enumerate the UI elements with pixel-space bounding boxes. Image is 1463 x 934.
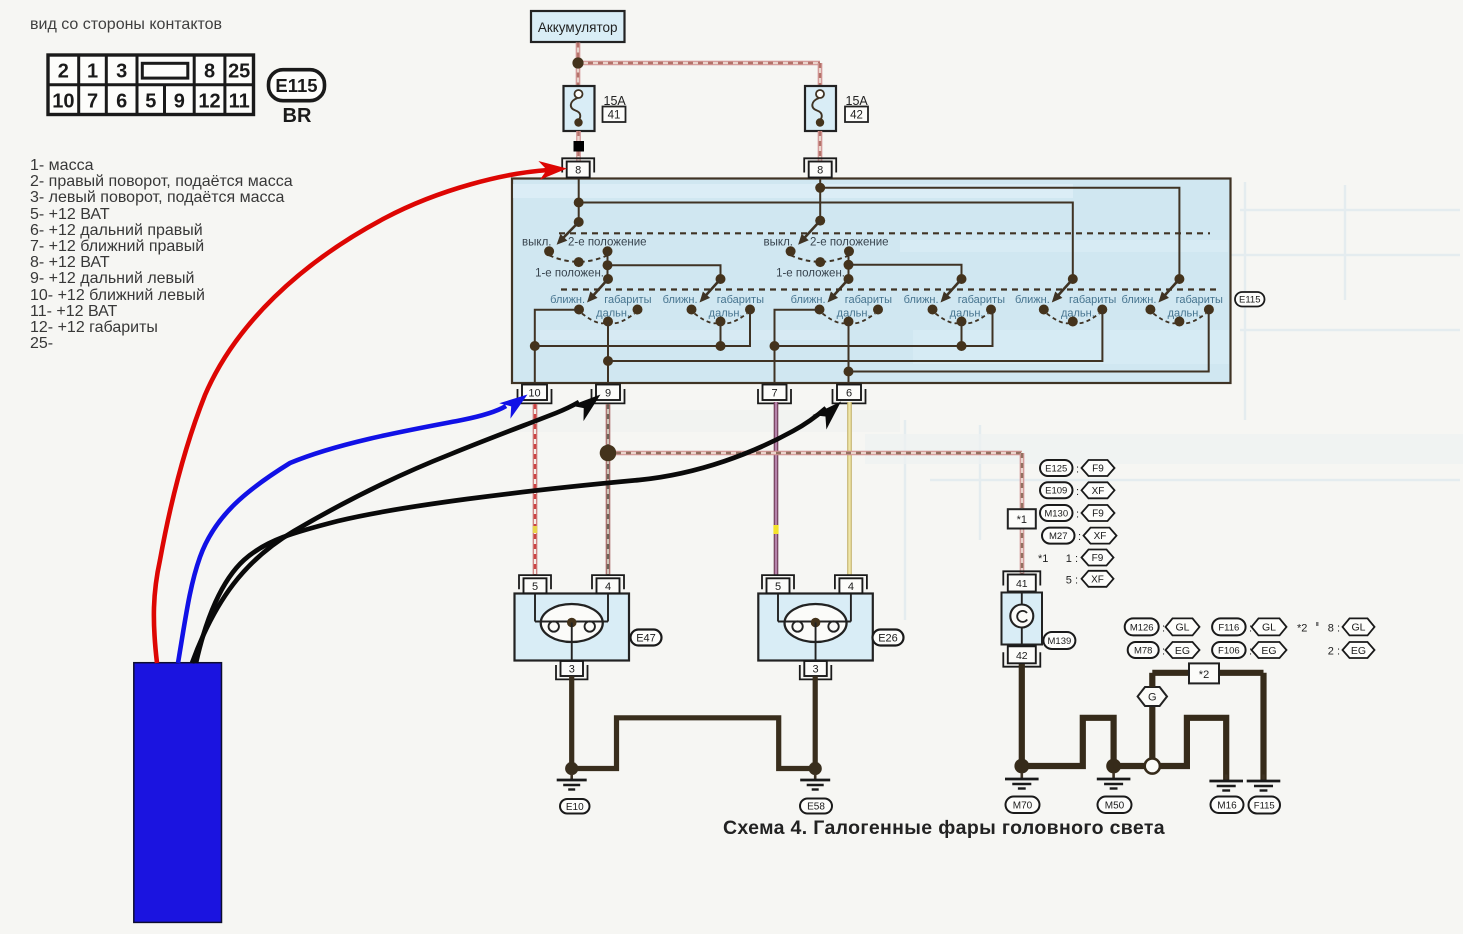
svg-text:9: 9 [605, 387, 611, 399]
wire junction to M139 (red striped) [616, 451, 1022, 456]
svg-text::: : [1076, 486, 1079, 498]
svg-text:XF: XF [1092, 486, 1105, 497]
svg-text:2 :: 2 : [1328, 646, 1340, 658]
svg-text:E26: E26 [878, 632, 898, 644]
svg-text:42: 42 [850, 110, 863, 122]
switch 2 lever [704, 279, 720, 297]
battery Аккумулятор [531, 11, 625, 42]
svg-text:M126: M126 [1130, 622, 1154, 633]
svg-text:8: 8 [204, 61, 215, 83]
svg-text:выкл.: выкл. [522, 237, 551, 249]
wire battery to fuse 41 [576, 43, 581, 87]
junction battery feed [572, 57, 583, 68]
switch lever A [561, 222, 578, 240]
net tag EG for F106 [1252, 642, 1287, 658]
reference M27 [1042, 528, 1075, 544]
contact ближн. switch 2 [687, 305, 697, 315]
wire to switch 3 pivot [848, 251, 850, 279]
svg-text:5: 5 [532, 581, 538, 593]
node G hexagon [1138, 687, 1167, 706]
svg-text:F106: F106 [1218, 645, 1240, 656]
wire pin 10 to lamp E47 (red/white) [533, 404, 538, 576]
dashed arc switch 5 [1047, 314, 1073, 324]
dashed arc switch 1 [582, 314, 608, 324]
connector pin 8 left [562, 158, 594, 172]
switch 2 pivot [716, 274, 726, 284]
svg-text:габариты: габариты [1176, 294, 1223, 306]
wire дальн.1 to pin 9 [607, 322, 609, 384]
switch 6 pivot [1174, 274, 1184, 284]
net tag F9 for M130 [1082, 505, 1115, 521]
ground M50 [1112, 773, 1115, 779]
svg-text:XF: XF [1094, 531, 1107, 542]
switch block designator E115 [1235, 292, 1265, 307]
wire rail to switch 5 pivot [579, 203, 1073, 280]
svg-text:3: 3 [569, 664, 575, 676]
svg-text::: : [1076, 509, 1079, 521]
svg-text:E115: E115 [1239, 295, 1260, 306]
svg-text:5 :: 5 : [1066, 575, 1078, 587]
contact дальн. switch 3 [844, 317, 854, 327]
svg-text:8: 8 [575, 165, 581, 177]
wire M139 pin 42 to ground M70 [1019, 664, 1025, 766]
svg-text:41: 41 [608, 110, 621, 122]
svg-text:*1: *1 [1017, 514, 1027, 526]
net tag GL for *2 pin 8 [1343, 618, 1375, 635]
svg-text:F9: F9 [1092, 553, 1104, 564]
connector pin 9 [592, 389, 625, 403]
contact габариты switch 5 [1097, 305, 1107, 315]
decorative [865, 434, 1463, 464]
wire G up to *2 run [1149, 673, 1155, 687]
svg-text:3: 3 [116, 61, 127, 83]
svg-text:Аккумулятор: Аккумулятор [538, 20, 618, 35]
svg-text:5: 5 [145, 91, 156, 113]
wire дальн.3 to pin 6 [848, 322, 850, 384]
connector pin 6 [833, 389, 866, 403]
switch 4 lever [945, 279, 961, 297]
wire down to M139 connector 41 [1020, 453, 1025, 574]
arrowhead red at pin 8 [538, 159, 567, 180]
svg-text:2-е положение: 2-е положение [810, 237, 889, 249]
connector pin 5 E47 [519, 575, 551, 589]
junction ground E58 [809, 762, 822, 775]
pointer curve black to pin 6 [196, 408, 826, 663]
connector pin 5 E26 [762, 575, 794, 589]
svg-text:E115: E115 [275, 75, 317, 96]
dashed arc switch 3 [823, 314, 849, 324]
contact ближн. switch 4 [928, 305, 938, 315]
decorative [1316, 622, 1319, 626]
contact ближн. switch 3 [815, 305, 825, 315]
contact дальн. switch 2 [716, 317, 726, 327]
svg-text:8 :: 8 : [1328, 623, 1340, 635]
svg-text:F115: F115 [1254, 800, 1275, 811]
pointer curve black to pin 9 [192, 402, 579, 663]
svg-text:1-е положен.: 1-е положен. [535, 268, 604, 280]
svg-text:GL: GL [1262, 622, 1276, 634]
svg-text:BR: BR [283, 105, 312, 127]
svg-text:M16: M16 [1217, 800, 1237, 811]
connector pin 8 right [804, 158, 836, 172]
junction rail 2 [603, 356, 613, 366]
headlamp E47 [515, 594, 630, 661]
pointer curve blue to pin 10 [178, 406, 506, 663]
junction ground M70 [1014, 759, 1029, 774]
junction rail 1 right [770, 341, 780, 351]
svg-text::: : [1162, 623, 1165, 635]
ground M16 [1225, 775, 1228, 781]
net tag EG for M78 [1166, 642, 1200, 658]
reference M126 [1125, 618, 1159, 635]
switch lever B [803, 221, 820, 240]
svg-text:EG: EG [1351, 645, 1366, 657]
svg-text::: : [1162, 646, 1165, 658]
wire to switch 1 pivot [607, 251, 609, 279]
svg-text:F116: F116 [1218, 622, 1239, 633]
wire ground interconnect E10-E58 [572, 718, 816, 769]
svg-text:E125: E125 [1045, 463, 1067, 474]
junction ground M50 [1106, 759, 1121, 774]
note box *1 [1008, 509, 1036, 528]
lamp designator E47 [631, 630, 662, 646]
junction дальн.4 [957, 341, 967, 351]
connector pin 7 [758, 389, 791, 403]
svg-text:*2: *2 [1297, 623, 1307, 635]
decorative [905, 182, 1460, 620]
black marker square on wire [574, 141, 585, 152]
svg-text:G: G [1148, 692, 1157, 704]
filament leads E26 [777, 594, 779, 622]
yellow splice tick [533, 526, 537, 533]
svg-text:дальн.: дальн. [596, 308, 630, 320]
svg-text:9: 9 [174, 91, 185, 113]
wire across *2 to F115 drop [1152, 670, 1263, 676]
svg-text:дальн.: дальн. [709, 308, 743, 320]
contact ближн. switch 1 [574, 305, 584, 315]
svg-text:M78: M78 [1134, 645, 1152, 656]
svg-text:F9: F9 [1092, 464, 1104, 475]
fuse number 41 box [603, 107, 626, 123]
junction rail B [815, 183, 825, 193]
ground F115 [1262, 775, 1265, 781]
svg-text:*2: *2 [1199, 669, 1209, 681]
connector pin 4 E26 [835, 575, 867, 589]
high beam filament E47 [585, 621, 595, 631]
wire splice up to G [1149, 707, 1155, 759]
contact габариты switch 6 [1204, 305, 1214, 315]
svg-text:8: 8 [817, 165, 823, 177]
reference M78 [1128, 642, 1159, 658]
highlight box (blue) [134, 663, 222, 923]
dashed arc switch 2 [695, 314, 721, 324]
svg-text:M139: M139 [1048, 636, 1072, 647]
wire rail to switch 6 pivot [820, 188, 1179, 279]
switch 5 pivot [1068, 274, 1078, 284]
svg-text:габариты: габариты [604, 294, 651, 306]
arrowhead black at pin 9 [571, 387, 607, 421]
junction headlight feed [600, 445, 617, 462]
svg-text:E109: E109 [1045, 486, 1067, 497]
svg-text:7: 7 [87, 91, 98, 113]
svg-text:41: 41 [1016, 578, 1028, 590]
lamp designator E26 [873, 630, 904, 646]
svg-text:25: 25 [228, 61, 250, 83]
svg-text:10: 10 [528, 387, 540, 399]
connector pin 3 E26 [800, 665, 832, 679]
net tag XF for M27 [1084, 528, 1117, 544]
svg-text:6: 6 [116, 91, 127, 113]
svg-text:GL: GL [1351, 622, 1365, 634]
svg-text:M70: M70 [1013, 800, 1033, 811]
junction 2-е feed A [603, 260, 613, 270]
wire battery junction to fuse 42 [578, 61, 820, 66]
wire pin 7 to lamp E26 (violet) [774, 402, 779, 576]
svg-text:M27: M27 [1049, 531, 1067, 542]
svg-text:ближн.: ближн. [904, 294, 939, 306]
wire rail 3 to габариты 6 [849, 310, 1209, 372]
wire to switch 4 pivot [849, 265, 962, 279]
wire splice to ground M16 [1160, 718, 1226, 781]
connector pin 4 E47 [592, 575, 624, 589]
junction ground E10 [565, 762, 578, 775]
junction rail 1 left [530, 341, 540, 351]
ground designator E10 [560, 799, 590, 814]
contact ближн. switch 6 [1145, 305, 1155, 315]
pinout cell grid [48, 83, 254, 86]
wire to switch 2 pivot [608, 265, 721, 279]
svg-text:1 :: 1 : [1066, 553, 1078, 565]
contact дальн. switch 1 [603, 317, 613, 327]
ground M70 [1020, 773, 1023, 779]
reference E125 [1040, 460, 1073, 476]
contact габариты switch 2 [745, 305, 755, 315]
switch 3 lever [832, 279, 848, 297]
ground E10 [570, 774, 573, 780]
ground E58 [814, 774, 817, 780]
svg-text:1: 1 [87, 61, 98, 83]
wire rail 2 to габариты 5 [608, 310, 1102, 362]
lamp common node E47 [567, 618, 577, 628]
svg-text:E47: E47 [636, 632, 656, 644]
svg-text::: : [1078, 531, 1081, 543]
wire дальн.4 drop [961, 322, 963, 347]
svg-text:ближн.: ближн. [1122, 294, 1157, 306]
net tag F9 for E125 [1082, 460, 1115, 476]
switch 1 pivot [603, 274, 613, 284]
switch pivot B [815, 216, 825, 226]
svg-text:ближн.: ближн. [550, 294, 585, 306]
filament leads E47 [534, 594, 536, 622]
connector designator E115 oval [269, 70, 325, 101]
fuse number 42 box [845, 107, 868, 123]
svg-text:2-е положение: 2-е положение [568, 237, 647, 249]
headlamp E26 [758, 594, 873, 661]
svg-text:дальн.: дальн. [837, 308, 871, 320]
wire M70 to M50 [1022, 718, 1114, 766]
low beam filament E26 [792, 621, 802, 631]
junction rail A [574, 198, 584, 208]
high beam filament E26 [828, 621, 838, 631]
mechanical linkage dashed upper [559, 232, 1210, 234]
note box *2 [1189, 663, 1219, 683]
ground designator M16 [1211, 797, 1244, 814]
fuse F41 15A [564, 86, 595, 131]
wire fuse 42 to pin 8 [818, 131, 823, 162]
svg-text:дальн.: дальн. [1061, 308, 1095, 320]
contact middle A [574, 257, 584, 267]
contact дальн. switch 5 [1068, 317, 1078, 327]
svg-text:выкл.: выкл. [764, 237, 793, 249]
ground designator M50 [1098, 797, 1132, 814]
svg-text::: : [1076, 464, 1079, 476]
wire rail 1 right [775, 310, 993, 347]
wire дальн.2 drop [720, 322, 722, 347]
svg-text:42: 42 [1016, 650, 1028, 662]
yellow splice tick [773, 525, 778, 534]
connector E115 pinout table [48, 55, 254, 115]
net tag XF for *1 pin 5 [1082, 571, 1114, 587]
switch 3 pivot [844, 274, 854, 284]
svg-text:E10: E10 [566, 802, 584, 813]
arrowhead blue at pin 10 [499, 387, 533, 419]
splice node (open circle) [1145, 758, 1160, 773]
connector pin 42 M139 [1003, 652, 1040, 666]
wire M50 to splice node [1114, 763, 1145, 769]
contact ближн. switch 5 [1039, 305, 1049, 315]
svg-text:3: 3 [812, 664, 818, 676]
svg-text:F9: F9 [1092, 509, 1104, 520]
headlight switch block E115 [512, 179, 1231, 384]
blank key cell rectangle [142, 63, 188, 78]
reference F116 [1212, 618, 1246, 635]
wire pin 7 to ближн.3 [775, 310, 820, 384]
net tag EG for *2 pin 2 [1343, 642, 1375, 658]
contact габариты switch 4 [986, 305, 996, 315]
svg-text:M130: M130 [1044, 508, 1068, 519]
svg-text:6: 6 [846, 387, 852, 399]
svg-text:2: 2 [58, 61, 69, 83]
switch 1 lever [592, 279, 608, 297]
svg-text:M50: M50 [1105, 800, 1125, 811]
svg-text:4: 4 [848, 581, 854, 593]
connector pin 41 M139 [1003, 571, 1040, 585]
svg-text:5: 5 [775, 581, 781, 593]
net tag F9 for *1 pin 1 [1082, 550, 1114, 566]
dashed arc switch A [549, 255, 607, 261]
svg-text:ближн.: ближн. [1015, 294, 1050, 306]
junction дальн.2 [716, 341, 726, 351]
svg-text:10: 10 [52, 91, 74, 113]
contact габариты switch 1 [633, 305, 643, 315]
wire ближн.1 to pin 10 [535, 310, 579, 384]
arrowhead black at pin 6 [812, 394, 847, 429]
wire lamp E47 pin 3 to ground [569, 676, 574, 769]
wire pin 9 to lamp E47 (red/grey) [606, 404, 611, 576]
svg-text:GL: GL [1175, 622, 1189, 634]
svg-text:*1: *1 [1038, 553, 1048, 565]
dashed arc switch 6 [1153, 314, 1179, 324]
lamp M139 [1002, 593, 1043, 645]
junction rail 3 [844, 367, 854, 377]
svg-text:4: 4 [605, 581, 611, 593]
svg-text::: : [1249, 646, 1252, 658]
wire pin 8 right feed [819, 179, 821, 221]
mechanical linkage dashed lower [561, 288, 1216, 290]
wire down to ground F115 [1260, 673, 1266, 781]
lamp common node E26 [811, 618, 821, 628]
svg-text:1-е положен.: 1-е положен. [776, 268, 845, 280]
contact 2-е положение A [603, 246, 613, 256]
switch pivot A [574, 217, 584, 227]
wire pin 8 left feed [578, 179, 580, 223]
svg-text:EG: EG [1175, 645, 1190, 657]
svg-text:7: 7 [771, 387, 777, 399]
low beam filament E47 [549, 621, 559, 631]
switch 6 lever [1163, 279, 1179, 297]
ground designator E58 [800, 799, 832, 814]
svg-text:11: 11 [229, 91, 250, 113]
wire lamp E26 pin 3 to ground [813, 676, 818, 769]
svg-text:ближн.: ближн. [791, 294, 826, 306]
svg-text:12: 12 [198, 91, 220, 113]
wire rail 1 left [535, 310, 750, 347]
dashed arc switch B [791, 255, 849, 261]
contact выкл A [544, 246, 554, 256]
svg-text:ближн.: ближн. [663, 294, 698, 306]
net tag XF for E109 [1082, 482, 1115, 498]
svg-text:габариты: габариты [1069, 294, 1116, 306]
wire down to fuse 42 [818, 63, 823, 87]
svg-text:габариты: габариты [845, 294, 892, 306]
net tag GL for F116 [1252, 618, 1287, 635]
connector pin 10 [518, 389, 552, 403]
ground designator M70 [1006, 797, 1040, 814]
connector pin 3 E47 [556, 665, 588, 679]
svg-text:EG: EG [1261, 645, 1276, 657]
svg-text:габариты: габариты [717, 294, 764, 306]
svg-text:E58: E58 [807, 802, 825, 813]
reference M130 [1040, 505, 1073, 521]
reference E109 [1040, 482, 1073, 498]
fuse F42 15A [805, 86, 836, 131]
lamp designator M139 [1043, 632, 1075, 649]
ground designator F115 [1249, 797, 1281, 814]
decorative [513, 184, 1073, 198]
switch 5 lever [1056, 279, 1072, 297]
wire fuse 41 to pin 8 [576, 131, 581, 162]
dashed arc switch 4 [936, 314, 962, 324]
svg-text:дальн.: дальн. [950, 308, 984, 320]
pointer curve red to pin 8 [154, 170, 548, 663]
svg-text:XF: XF [1091, 574, 1104, 585]
contact дальн. switch 6 [1174, 317, 1184, 327]
net tag GL for M126 [1166, 618, 1200, 635]
contact middle B [815, 257, 825, 267]
svg-text:дальн.: дальн. [1168, 308, 1202, 320]
contact дальн. switch 4 [957, 317, 967, 327]
reference F106 [1212, 642, 1246, 658]
switch 4 pivot [957, 274, 967, 284]
wire pin 6 to lamp E26 (yellow) [847, 402, 852, 576]
svg-text:габариты: габариты [958, 294, 1005, 306]
contact выкл B [786, 246, 796, 256]
svg-text::: : [1249, 623, 1252, 635]
contact габариты switch 3 [873, 305, 883, 315]
contact 2-е положение B [844, 246, 854, 256]
junction 2-е feed B [844, 260, 854, 270]
